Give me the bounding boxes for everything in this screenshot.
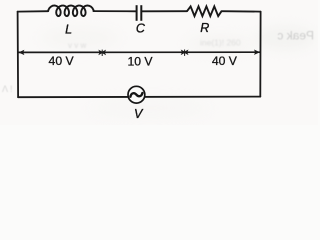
voltage dimension line — [18, 51, 260, 53]
wire capacitor-to-resistor — [142, 10, 187, 12]
svg-text:R: R — [200, 21, 209, 35]
AC source V — [128, 86, 145, 103]
arrowhead right end — [254, 50, 260, 55]
bleed-through ghost text "Peak" (mirrored) — [277, 29, 314, 43]
svg-text:ine(1)! 260: ine(1)! 260 — [200, 38, 241, 48]
inductor L — [48, 6, 94, 17]
wire left vertical — [17, 12, 20, 98]
wire bottom — [18, 96, 260, 99]
resistor R — [187, 6, 222, 16]
svg-text:40 V: 40 V — [212, 54, 238, 68]
svg-text:v v w: v v w — [68, 41, 86, 50]
node junction 1 (tick + facing arrowheads) — [98, 50, 106, 56]
wire top-left segment — [18, 10, 48, 12]
svg-text:Peak c: Peak c — [277, 29, 314, 43]
svg-text:C: C — [136, 22, 146, 36]
svg-text:10 V: 10 V — [127, 55, 153, 69]
wire resistor-to-top-right — [222, 10, 261, 12]
wire right vertical — [259, 12, 261, 97]
svg-text:40 V: 40 V — [49, 54, 75, 68]
arrowhead left end — [18, 50, 24, 55]
node junction 2 (tick + facing arrowheads) — [181, 50, 189, 56]
wire inductor-to-capacitor — [93, 10, 135, 12]
capacitor C — [137, 5, 142, 21]
paper background — [0, 0, 318, 125]
svg-text:L: L — [65, 23, 72, 37]
svg-text:Λ !: Λ ! — [2, 84, 13, 94]
